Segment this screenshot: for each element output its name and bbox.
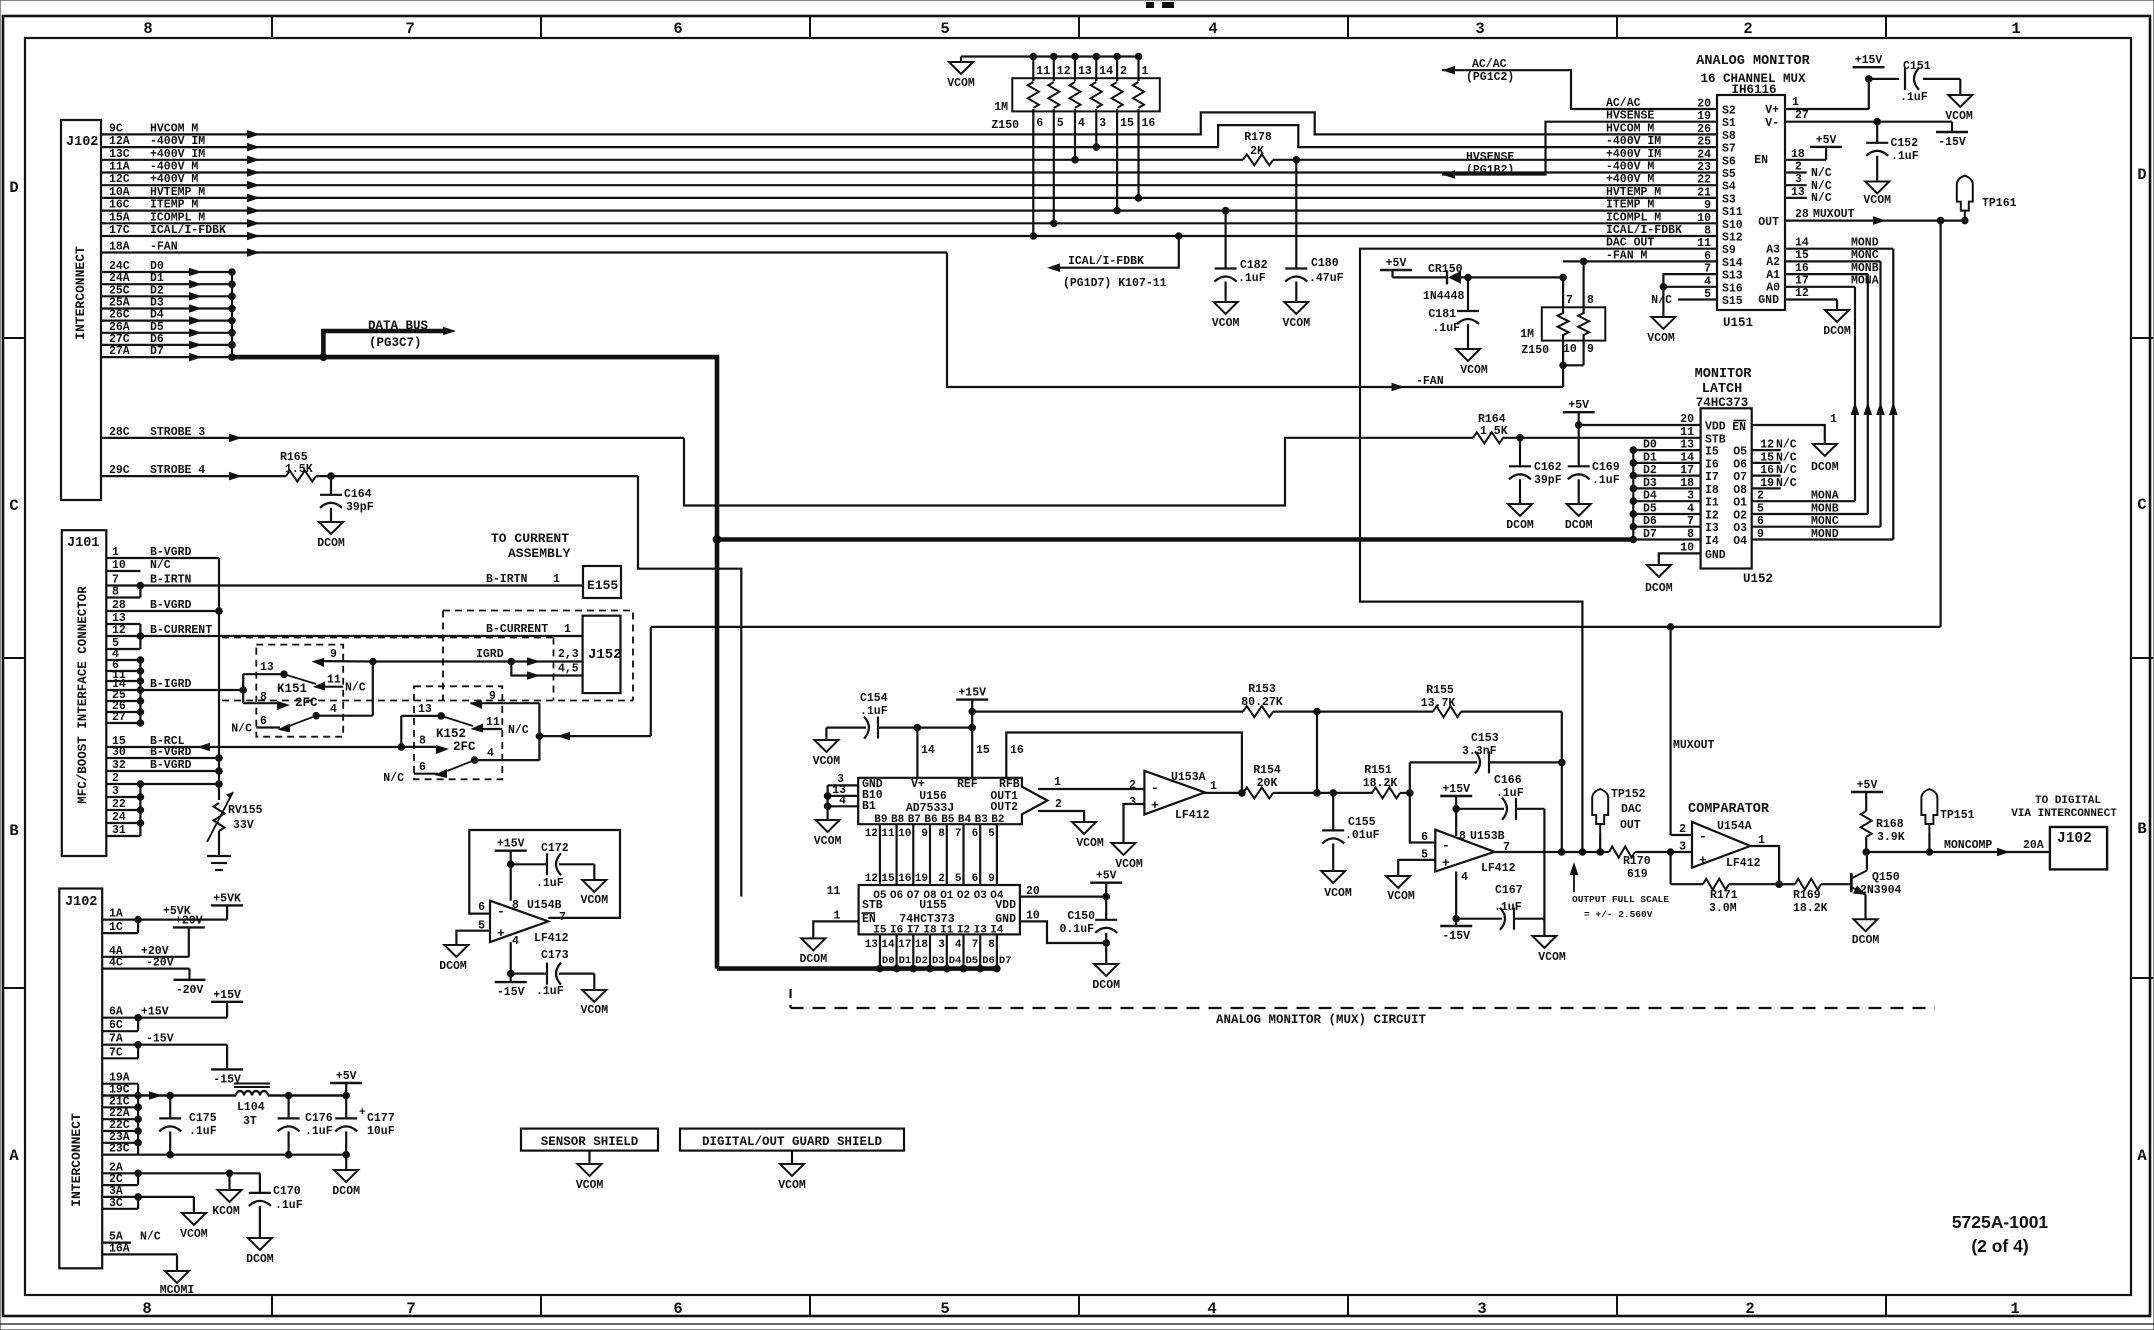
svg-text:.47uF: .47uF	[1309, 272, 1344, 285]
svg-text:39pF: 39pF	[346, 501, 374, 514]
svg-text:1: 1	[1830, 413, 1837, 426]
IC U152 74HC373 monitor latch	[1695, 367, 1773, 586]
wire U154B pin 4 to -15V	[507, 942, 515, 982]
svg-text:D4: D4	[949, 955, 962, 967]
wire MUXOUT to U154A - input	[1671, 834, 1692, 836]
K151 contact 6 N/C	[231, 715, 290, 736]
svg-text:MONA: MONA	[1851, 275, 1879, 288]
wire R153 junction down to output line	[1313, 712, 1321, 797]
svg-text:+5V: +5V	[1386, 257, 1407, 270]
svg-text:MFC/BOOST INTERFACE CONNECTOR: MFC/BOOST INTERFACE CONNECTOR	[76, 586, 90, 804]
svg-text:O1: O1	[940, 890, 954, 902]
svg-text:INTERCONNECT: INTERCONNECT	[73, 246, 88, 340]
svg-text:ICOMPL M: ICOMPL M	[1606, 211, 1661, 224]
K151 contact 13 blade	[243, 661, 316, 684]
svg-text:C: C	[2137, 496, 2146, 514]
svg-text:STB: STB	[1705, 433, 1726, 446]
svg-text:3.9K: 3.9K	[1877, 831, 1905, 844]
svg-text:N/C: N/C	[1811, 192, 1832, 205]
svg-text:8: 8	[260, 691, 267, 704]
svg-text:C173: C173	[541, 949, 569, 962]
dashed boundary ANALOG MONITOR (MUX) CIRCUIT	[791, 989, 1936, 1027]
svg-text:C154: C154	[860, 692, 888, 705]
svg-text:1: 1	[2010, 1300, 2019, 1318]
J101 pin 25 stub	[106, 689, 140, 702]
svg-text:C182: C182	[1240, 259, 1268, 272]
svg-text:1: 1	[1054, 776, 1061, 789]
svg-text:S5: S5	[1722, 168, 1736, 181]
svg-text:-15V: -15V	[497, 986, 525, 999]
terminal SENSOR SHIELD	[521, 1129, 658, 1164]
svg-text:I1: I1	[1705, 497, 1719, 510]
svg-text:LF412: LF412	[1726, 857, 1761, 870]
svg-text:1: 1	[833, 910, 840, 923]
J101 pin 24 stub	[106, 811, 140, 824]
svg-text:+15V: +15V	[1855, 54, 1883, 67]
K152 contact 4 blade	[447, 747, 539, 771]
wire D1 from J102	[101, 272, 236, 288]
J101 pin 5 stub	[106, 637, 140, 650]
svg-text:C151: C151	[1903, 60, 1931, 73]
svg-text:S4: S4	[1722, 181, 1736, 194]
svg-text:24C: 24C	[109, 260, 130, 273]
title text 5725A-1001	[1952, 1212, 2049, 1256]
svg-text:VCOM: VCOM	[947, 77, 975, 90]
ground DCOM at U155 EN	[799, 938, 827, 966]
U152 O8 pin 19 N/C stub	[1733, 477, 1797, 497]
svg-text:R169: R169	[1793, 889, 1821, 902]
J101 pin 12 B-CURRENT	[106, 624, 582, 637]
svg-text:D4: D4	[1643, 490, 1657, 503]
svg-text:7: 7	[972, 939, 979, 951]
svg-text:MCOMI: MCOMI	[160, 1284, 195, 1297]
svg-text:7: 7	[955, 828, 962, 840]
U152 EN pin 1 to DCOM	[1732, 413, 1837, 444]
svg-text:C164: C164	[344, 488, 372, 501]
svg-text:J101: J101	[67, 536, 99, 551]
svg-text:VCOM: VCOM	[778, 1179, 806, 1192]
svg-text:+400V IM: +400V IM	[150, 148, 205, 161]
svg-text:3: 3	[1679, 841, 1686, 854]
svg-text:EN: EN	[1754, 154, 1768, 167]
J101 pin 28 B-VGRD	[106, 599, 219, 612]
svg-text:11: 11	[827, 885, 841, 898]
ground DCOM under Q150	[1852, 919, 1880, 947]
svg-text:1: 1	[553, 573, 560, 586]
svg-text:-15V: -15V	[1938, 136, 1966, 149]
svg-text:7: 7	[405, 20, 414, 38]
J101 pin 1 B-VGRD	[106, 546, 219, 559]
svg-text:S3: S3	[1722, 193, 1736, 206]
svg-text:.1uF: .1uF	[1592, 474, 1620, 487]
svg-text:9: 9	[1757, 528, 1764, 541]
svg-text:S11: S11	[1722, 206, 1743, 219]
svg-text:10uF: 10uF	[367, 1125, 395, 1138]
svg-text:C: C	[9, 497, 18, 515]
svg-text:16: 16	[898, 873, 911, 885]
svg-text:18.2K: 18.2K	[1363, 777, 1398, 790]
svg-text:S6: S6	[1722, 155, 1736, 168]
svg-text:25A: 25A	[109, 297, 130, 310]
svg-text:20K: 20K	[1257, 777, 1278, 790]
svg-text:14: 14	[921, 744, 935, 757]
capacitor C166 .1uF	[1456, 774, 1544, 921]
capacitor C167 .1uF	[1456, 884, 1544, 936]
svg-text:-400V IM: -400V IM	[1606, 135, 1661, 148]
svg-text:3T: 3T	[243, 1115, 257, 1128]
wire J102 3C bracket	[102, 1197, 138, 1210]
svg-text:U154B: U154B	[527, 899, 562, 912]
svg-text:-: -	[497, 904, 505, 919]
ground DCOM under U152	[1645, 565, 1673, 595]
svg-text:(2 of 4): (2 of 4)	[1971, 1236, 2028, 1256]
ground VCOM at U153A +	[1112, 843, 1143, 871]
svg-text:10: 10	[1563, 343, 1577, 356]
svg-text:I6: I6	[1705, 458, 1719, 471]
svg-text:MUXOUT: MUXOUT	[1813, 208, 1855, 221]
ground DCOM under C150	[1092, 964, 1120, 992]
svg-text:.1uF: .1uF	[1891, 150, 1919, 163]
svg-text:5: 5	[955, 873, 962, 885]
svg-text:5: 5	[988, 828, 995, 840]
power +15V at J102	[211, 989, 243, 1002]
wire J102 3A to VCOM	[102, 1185, 194, 1213]
wire U152 O2 pin 5 MONB	[1733, 503, 1868, 523]
svg-text:DCOM: DCOM	[1645, 582, 1673, 595]
svg-text:ITEMP M: ITEMP M	[150, 199, 198, 212]
svg-text:+15V: +15V	[958, 687, 986, 700]
capacitor C182 .1uF	[1215, 207, 1268, 302]
ground VCOM at Z150 top	[947, 57, 975, 91]
svg-text:33V: 33V	[233, 819, 254, 832]
svg-text:2: 2	[1795, 161, 1802, 174]
svg-text:S14: S14	[1722, 257, 1743, 270]
svg-text:4: 4	[955, 939, 962, 951]
svg-text:8: 8	[938, 828, 945, 840]
svg-text:(PG1B2): (PG1B2)	[1466, 164, 1514, 177]
svg-text:RV155: RV155	[228, 804, 263, 817]
wire ICOMPL M	[101, 211, 1717, 227]
svg-text:+15V: +15V	[141, 1006, 169, 1019]
capacitor C151 .1uF	[1900, 60, 1931, 104]
svg-text:.1uF: .1uF	[1900, 91, 1928, 104]
svg-text:4: 4	[512, 935, 519, 948]
svg-text:A0: A0	[1766, 282, 1780, 295]
svg-text:D7: D7	[999, 955, 1012, 967]
wire B-VGRD vertical with RV155	[215, 558, 223, 800]
svg-text:B-IRTN: B-IRTN	[486, 573, 528, 586]
svg-text:VCOM: VCOM	[580, 894, 608, 907]
svg-text:3: 3	[1687, 490, 1694, 503]
U151 pin S15 N/C stub	[1651, 294, 1717, 307]
svg-text:D6: D6	[1643, 515, 1657, 528]
wire J102 7C bracket	[102, 1045, 138, 1060]
svg-text:VIA INTERCONNECT: VIA INTERCONNECT	[2011, 808, 2117, 820]
terminal DIGITAL/OUT GUARD SHIELD	[680, 1129, 904, 1164]
J101 pin 32 B-VGRD	[106, 759, 219, 772]
power -15V at U151	[1936, 132, 1968, 149]
svg-text:5: 5	[1757, 503, 1764, 516]
wire R171 feedback line	[1671, 852, 1780, 884]
ground VCOM under U151 S16	[1647, 317, 1675, 345]
svg-text:VCOM: VCOM	[1212, 317, 1240, 330]
wire -FAN from J102 18A	[101, 241, 1563, 392]
svg-text:-20V: -20V	[146, 957, 174, 970]
svg-text:-: -	[1442, 838, 1450, 853]
U156 bottom pin names B9..B2	[874, 814, 1004, 826]
svg-text:1: 1	[1792, 96, 1799, 109]
svg-text:J102: J102	[65, 895, 97, 910]
svg-text:28: 28	[1795, 208, 1809, 221]
svg-text:S16: S16	[1722, 282, 1743, 295]
svg-text:S12: S12	[1722, 232, 1743, 245]
svg-text:8: 8	[419, 735, 426, 748]
wire data bus into latch (vertical)	[1632, 450, 1634, 539]
guard dashed box around J152	[222, 611, 633, 701]
wires U156 B pins to U155 latch outputs	[880, 824, 997, 885]
svg-text:LF412: LF412	[1175, 809, 1210, 822]
svg-text:10: 10	[1680, 541, 1694, 554]
svg-text:N/C: N/C	[345, 682, 366, 695]
svg-text:+15V: +15V	[1442, 783, 1470, 796]
op-amp U153A LF412	[1129, 771, 1217, 822]
svg-text:12: 12	[1795, 287, 1809, 300]
svg-text:D2: D2	[1643, 464, 1657, 477]
svg-text:+5V: +5V	[1568, 399, 1589, 412]
svg-text:3C: 3C	[109, 1197, 123, 1210]
svg-text:KCOM: KCOM	[212, 1205, 240, 1218]
svg-text:IH6116: IH6116	[1731, 83, 1776, 97]
svg-text:9: 9	[1587, 343, 1594, 356]
svg-text:U151: U151	[1723, 316, 1753, 330]
svg-text:O2: O2	[1733, 510, 1747, 523]
svg-text:14: 14	[881, 939, 895, 951]
zone numbers bottom	[142, 1300, 2019, 1318]
svg-text:18.2K: 18.2K	[1793, 902, 1828, 915]
svg-text:VCOM: VCOM	[180, 1228, 208, 1241]
svg-text:C181: C181	[1428, 308, 1456, 321]
svg-text:S15: S15	[1722, 295, 1743, 308]
svg-text:74HC373: 74HC373	[1696, 396, 1749, 410]
capacitor C169 .1uF	[1568, 425, 1620, 504]
svg-text:C150: C150	[1067, 910, 1095, 923]
svg-text:SENSOR SHIELD: SENSOR SHIELD	[541, 1135, 639, 1149]
svg-text:10: 10	[1026, 910, 1040, 923]
svg-text:1M: 1M	[994, 101, 1008, 114]
svg-text:I8: I8	[1705, 484, 1719, 497]
wire -400V IM	[101, 125, 1717, 151]
svg-text:DAC: DAC	[1621, 803, 1642, 816]
power +15V at U153B pin 8	[1440, 783, 1472, 836]
terminal E155	[486, 566, 621, 598]
resistor R153 80.27K	[1241, 683, 1283, 717]
power -15V at U154B	[495, 982, 527, 999]
wire +400V IM	[101, 148, 1717, 164]
test point TP151	[1921, 789, 1974, 852]
svg-text:E155: E155	[587, 578, 618, 593]
wire data bus vertical collector	[231, 272, 233, 357]
svg-text:-20V: -20V	[176, 984, 204, 997]
svg-text:D1: D1	[150, 272, 164, 285]
svg-text:1: 1	[564, 623, 571, 636]
svg-text:DCOM: DCOM	[1811, 461, 1839, 474]
svg-text:ICOMPL M: ICOMPL M	[150, 211, 205, 224]
svg-text:U153A: U153A	[1171, 771, 1206, 784]
J101 pin 26 stub	[106, 700, 140, 713]
svg-text:6: 6	[478, 901, 485, 914]
svg-text:11: 11	[486, 716, 500, 729]
svg-text:-400V M: -400V M	[1606, 161, 1654, 174]
svg-text:TP152: TP152	[1611, 788, 1646, 801]
ground DCOM under C164	[317, 522, 345, 550]
U155 bottom pin names I5..I4	[873, 925, 1004, 937]
wire K152 common to MUXOUT	[536, 627, 651, 761]
J101 pin 31 stub	[106, 824, 140, 837]
svg-text:21: 21	[1697, 186, 1711, 199]
svg-text:R155: R155	[1426, 684, 1454, 697]
wire MUXOUT (long net)	[651, 221, 1941, 835]
power +5VK	[211, 892, 243, 905]
wire J102 6A +15V	[102, 1002, 227, 1022]
resistor R171 3.0M	[1703, 879, 1738, 915]
wire D3 from J102	[101, 297, 236, 313]
svg-text:N/C: N/C	[383, 772, 404, 785]
ground VCOM under C180	[1282, 302, 1310, 330]
ground DCOM under C162	[1506, 504, 1534, 532]
svg-text:LATCH: LATCH	[1702, 382, 1743, 397]
svg-text:5: 5	[940, 1300, 949, 1318]
wire DAC OUT net (U153B out to U151 S9)	[1360, 249, 1717, 856]
U155 D0..D7 stubs to data bus	[876, 934, 1011, 972]
svg-text:4: 4	[487, 747, 494, 760]
svg-text:+: +	[1699, 853, 1707, 868]
svg-text:OUT: OUT	[1620, 819, 1641, 832]
svg-text:13: 13	[865, 939, 879, 951]
svg-text:CR150: CR150	[1428, 263, 1463, 276]
svg-text:DCOM: DCOM	[1823, 325, 1851, 338]
wire U156 OUT1 to U153A	[1038, 776, 1144, 789]
wire U155 EN pin 1 to DCOM	[813, 910, 858, 939]
resistor R151 18.2K	[1363, 764, 1400, 798]
svg-text:U153B: U153B	[1470, 830, 1505, 843]
wire S13/S16 to VCOM	[1660, 274, 1717, 317]
svg-text:12: 12	[1760, 439, 1774, 452]
svg-text:3: 3	[1475, 20, 1484, 38]
svg-text:VCOM: VCOM	[576, 1179, 604, 1192]
svg-text:24: 24	[1697, 148, 1711, 161]
svg-text:14: 14	[1099, 65, 1113, 78]
U155 top pin names O5..O4	[873, 890, 1004, 902]
svg-text:S1: S1	[1722, 117, 1736, 130]
svg-text:-15V: -15V	[146, 1033, 174, 1046]
svg-text:N/C: N/C	[140, 1231, 161, 1244]
J101 pin 11 stub	[106, 669, 140, 682]
svg-text:9: 9	[489, 690, 496, 703]
wire ITEMP M	[101, 199, 1717, 215]
wire MONB vertical to latch O2	[1864, 274, 1873, 514]
svg-text:C172: C172	[541, 842, 569, 855]
J101 pin 7 B-IRTN	[106, 574, 583, 587]
svg-text:I5: I5	[1705, 446, 1719, 459]
ground DCOM under C177	[332, 1170, 360, 1198]
svg-text:O2: O2	[957, 890, 970, 902]
svg-text:12: 12	[865, 828, 878, 840]
ground DCOM under C170	[246, 1238, 274, 1266]
wire U151 A0 pin17 MONA	[1766, 275, 1879, 295]
U155 bottom pin numbers	[865, 939, 996, 951]
svg-text:MONC: MONC	[1851, 249, 1879, 262]
svg-text:.1uF: .1uF	[1496, 787, 1524, 800]
svg-text:18: 18	[915, 939, 929, 951]
ground VCOM under C166/C167	[1532, 936, 1565, 964]
svg-text:AC/AC: AC/AC	[1472, 58, 1507, 71]
svg-text:I7: I7	[1705, 471, 1719, 484]
wire ICAL/I-FDBK	[101, 224, 1717, 240]
ground VCOM under C152	[1863, 182, 1891, 208]
svg-text:15: 15	[881, 873, 895, 885]
wire U153A output	[1205, 789, 1246, 797]
svg-text:O3: O3	[1733, 522, 1747, 535]
svg-text:4: 4	[1208, 20, 1217, 38]
power +15V at U154B pin 8	[495, 838, 527, 901]
svg-text:8: 8	[1459, 830, 1466, 843]
wire +400V M	[101, 173, 1717, 189]
power +15V at U151	[1853, 54, 1885, 67]
svg-text:13: 13	[1791, 186, 1805, 199]
svg-text:6: 6	[1036, 117, 1043, 130]
svg-text:DCOM: DCOM	[1092, 979, 1120, 992]
svg-text:VCOM: VCOM	[1460, 364, 1488, 377]
svg-text:VCOM: VCOM	[580, 1004, 608, 1017]
connector J101 MFC/BOOST interface	[62, 530, 107, 856]
svg-text:D0: D0	[1643, 439, 1657, 452]
svg-text:7C: 7C	[109, 1046, 123, 1059]
svg-text:1M: 1M	[1520, 328, 1534, 341]
svg-text:MONB: MONB	[1811, 503, 1839, 516]
svg-text:VDD: VDD	[1705, 421, 1726, 434]
svg-text:D3: D3	[150, 297, 164, 310]
svg-text:13: 13	[1078, 65, 1092, 78]
wire J102 4C -20V	[102, 957, 189, 980]
svg-text:9C: 9C	[109, 122, 123, 135]
svg-text:7: 7	[1566, 294, 1573, 307]
svg-text:8: 8	[988, 939, 995, 951]
resistor R169 18.2K	[1779, 879, 1851, 915]
wire U152 D0 input	[1630, 439, 1719, 459]
svg-text:3: 3	[1099, 117, 1106, 130]
svg-text:VCOM: VCOM	[814, 835, 842, 848]
wire J102 4A +20V	[102, 927, 189, 957]
svg-text:D5: D5	[1643, 503, 1657, 516]
svg-text:-15V: -15V	[1442, 930, 1470, 943]
U151 pin 13 N/C stub	[1785, 186, 1832, 205]
svg-text:9: 9	[330, 648, 337, 661]
capacitor C164 39pF	[320, 476, 374, 522]
U152 O7 pin 16 N/C stub	[1733, 464, 1797, 484]
ground VCOM at OUT2	[1072, 822, 1104, 850]
resistor network Z150 1M (6 resistors)	[961, 53, 1160, 240]
svg-text:8: 8	[1687, 528, 1694, 541]
svg-text:DCOM: DCOM	[332, 1185, 360, 1198]
svg-text:.01uF: .01uF	[1345, 829, 1380, 842]
wire D5 from J102	[101, 321, 236, 337]
svg-text:MOND: MOND	[1811, 528, 1839, 541]
svg-text:2: 2	[1757, 490, 1764, 503]
svg-text:.1uF: .1uF	[860, 705, 888, 718]
capacitor C181 .1uF	[1428, 277, 1479, 349]
wire U152 D7 input	[1630, 528, 1719, 548]
svg-text:9: 9	[988, 873, 995, 885]
